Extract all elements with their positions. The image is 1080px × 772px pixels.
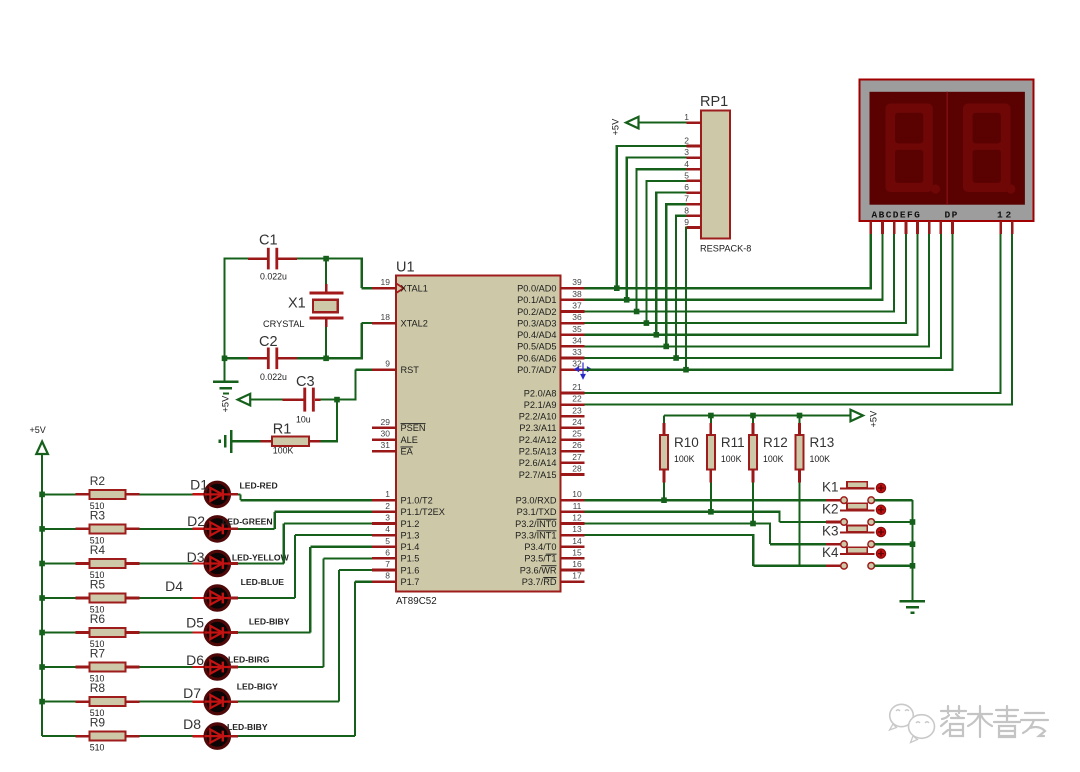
pin 35 (517, 324, 584, 340)
svg-text:P3.0/RXD: P3.0/RXD (516, 496, 557, 506)
svg-text:LED-GREEN: LED-GREEN (222, 517, 273, 527)
resistor R10 (660, 416, 699, 501)
wire RP1 pin6 to P0.4 (656, 192, 686, 335)
wire D8 to pin 8 (230, 582, 372, 736)
svg-text:R11: R11 (721, 435, 745, 450)
wire P2.0 to display common 1 (585, 234, 1001, 394)
svg-text:XTAL1: XTAL1 (401, 284, 428, 294)
svg-text:D1: D1 (190, 477, 208, 493)
pin 33 (517, 347, 584, 363)
pin 28 (519, 464, 585, 480)
svg-text:P2.2/A10: P2.2/A10 (519, 412, 557, 422)
wire RP1 pin2 to P0.0 (617, 145, 687, 288)
svg-text:+5V: +5V (30, 425, 46, 435)
svg-text:CRYSTAL: CRYSTAL (263, 319, 305, 329)
LED D8 (183, 716, 268, 748)
pin 26 (519, 440, 585, 456)
svg-text:D8: D8 (183, 716, 201, 732)
svg-text:30: 30 (381, 429, 391, 439)
svg-text:100K: 100K (810, 454, 831, 464)
pin 10 (516, 489, 585, 505)
wire P0.0 to display A (585, 234, 871, 289)
wire P0.7 to display DP (585, 234, 953, 371)
svg-text:P0.3/AD3: P0.3/AD3 (517, 318, 556, 328)
junction C3/R1 (334, 397, 340, 403)
svg-text:AT89C52: AT89C52 (396, 596, 437, 607)
svg-text:31: 31 (381, 440, 391, 450)
pin 22 (524, 394, 585, 410)
op-amp U1 body (AT89C52 MCU) (396, 260, 561, 608)
pin 4 RP1 (684, 159, 701, 170)
pin 37 (517, 301, 584, 317)
svg-text:29: 29 (381, 417, 391, 427)
origin marker (blue) (575, 363, 591, 379)
svg-text:P3.5/T1: P3.5/T1 (524, 554, 556, 564)
svg-text:28: 28 (572, 464, 582, 474)
pin 19 (372, 277, 428, 293)
pin 9 (372, 359, 419, 375)
junction rail (797, 413, 803, 419)
LED D5 (186, 615, 290, 645)
pin 3 RP1 (684, 147, 701, 158)
svg-text:R13: R13 (810, 435, 835, 450)
svg-text:K4: K4 (822, 545, 839, 560)
svg-text:36: 36 (572, 312, 582, 322)
svg-text:LED-BLUE: LED-BLUE (241, 577, 285, 587)
svg-text:P1.3: P1.3 (401, 530, 420, 540)
svg-text:P2.1/A9: P2.1/A9 (524, 400, 557, 410)
svg-text:10: 10 (572, 489, 582, 499)
svg-text:P1.6: P1.6 (401, 565, 420, 575)
pin 1 display (999, 221, 1002, 234)
pin 30 (372, 429, 418, 445)
junction C2 left (222, 356, 228, 362)
pin 2 (372, 501, 445, 517)
svg-text:P0.6/AD6: P0.6/AD6 (517, 353, 556, 363)
svg-text:3: 3 (385, 513, 390, 523)
LED D6 (186, 652, 270, 679)
LED D4 (165, 577, 284, 610)
junction (624, 297, 630, 303)
pin 8 RP1 (684, 205, 701, 216)
svg-text:ABCDEFG: ABCDEFG (872, 210, 922, 221)
wire R8 to LED (140, 700, 193, 702)
wire D5 to pin 5 (230, 547, 372, 633)
wire P2.1 to display common 2 (585, 234, 1013, 406)
svg-text:R1: R1 (273, 422, 292, 438)
junction (654, 332, 660, 338)
svg-text:7: 7 (385, 559, 390, 569)
svg-text:2: 2 (1006, 210, 1012, 221)
svg-text:RP1: RP1 (700, 94, 728, 110)
svg-text:K1: K1 (822, 480, 839, 495)
svg-text:P1.5: P1.5 (401, 554, 420, 564)
svg-text:LED-BIGY: LED-BIGY (237, 681, 278, 691)
svg-text:P0.5/AD5: P0.5/AD5 (517, 342, 556, 352)
resistor R8 (42, 681, 140, 718)
wire C2 row to XTAL2 pin18 (326, 323, 373, 359)
wire RP1 pin3 to P0.1 (627, 157, 687, 300)
svg-text:100K: 100K (273, 446, 294, 456)
wire R7 to LED (140, 666, 193, 668)
wire RP1 pin5 to P0.3 (646, 180, 686, 323)
junction (683, 367, 689, 373)
pin 39 (517, 277, 584, 293)
svg-text:U1: U1 (396, 260, 415, 276)
svg-text:26: 26 (572, 440, 582, 450)
svg-text:P2.5/A13: P2.5/A13 (519, 447, 557, 457)
svg-text:LED-BIBY: LED-BIBY (227, 722, 268, 732)
pin 36 (517, 312, 584, 328)
wire RP1 pin4 to P0.2 (637, 168, 687, 311)
svg-text:15: 15 (572, 547, 582, 557)
pin D display (905, 221, 908, 234)
pin 7 (372, 559, 419, 575)
svg-text:R9: R9 (90, 716, 106, 730)
svg-text:510: 510 (90, 743, 105, 753)
pin E display (916, 221, 919, 234)
svg-text:XTAL2: XTAL2 (401, 318, 428, 328)
pin 1 (372, 489, 433, 505)
svg-text:P1.0/T2: P1.0/T2 (401, 496, 433, 506)
pin 2 RP1 (684, 136, 701, 147)
wire RP1 pin9 to P0.7 (685, 226, 688, 369)
LED D2 (187, 513, 273, 541)
svg-text:R2: R2 (90, 474, 106, 488)
svg-text:38: 38 (572, 289, 582, 299)
wire P3.0 to K1 (585, 499, 833, 501)
svg-text:D6: D6 (186, 652, 204, 668)
junction (673, 355, 679, 361)
svg-text:19: 19 (381, 277, 391, 287)
svg-text:1: 1 (385, 489, 390, 499)
button K3 (822, 524, 913, 548)
wire C3 junction down to R1 (320, 400, 338, 442)
junction bus (39, 630, 45, 636)
svg-text:R4: R4 (90, 543, 106, 557)
svg-text:K3: K3 (822, 524, 839, 539)
wire P3.2 to K3 (jog) (585, 522, 833, 544)
svg-text:R6: R6 (90, 612, 106, 626)
pin 24 (519, 417, 584, 433)
wire R4 to LED (140, 562, 193, 564)
svg-text:3: 3 (684, 147, 689, 157)
LED D7 (183, 681, 278, 713)
junction C1/X1 (323, 256, 329, 262)
svg-text:PSEN: PSEN (401, 423, 426, 433)
wire K bus vertical (911, 500, 913, 600)
LED D3 (187, 549, 290, 576)
pin 8 (372, 571, 419, 587)
button K2 (822, 501, 913, 525)
capacitor C2 (225, 334, 327, 382)
svg-text:P0.1/AD1: P0.1/AD1 (517, 295, 556, 305)
svg-text:P0.4/AD4: P0.4/AD4 (517, 330, 556, 340)
wire R5 to LED (140, 597, 193, 599)
svg-text:R3: R3 (90, 508, 106, 522)
svg-text:21: 21 (572, 382, 582, 392)
wire P0.2 to display C (585, 234, 895, 313)
svg-text:1: 1 (684, 112, 689, 122)
resistor pack RP1 (700, 94, 751, 254)
svg-text:100K: 100K (763, 454, 784, 464)
svg-text:RST: RST (401, 365, 420, 375)
svg-text:39: 39 (572, 277, 582, 287)
wire R2 to LED (140, 493, 193, 495)
svg-text:P3.7/RD: P3.7/RD (522, 577, 557, 587)
resistor R3 (42, 508, 140, 545)
svg-text:D5: D5 (186, 615, 204, 631)
svg-text:2: 2 (385, 501, 390, 511)
svg-text:P3.2/INT0: P3.2/INT0 (515, 519, 556, 529)
resistor R2 (42, 474, 140, 511)
svg-text:11: 11 (573, 501, 582, 511)
pin C display (893, 221, 896, 234)
pin 12 (515, 513, 584, 529)
junction R10 bottom (661, 497, 667, 503)
svg-text:LED-RED: LED-RED (240, 481, 278, 491)
svg-text:P0.7/AD7: P0.7/AD7 (517, 365, 556, 375)
button K4 (822, 545, 913, 569)
clock marker XTAL1 (397, 284, 404, 293)
pin 7 RP1 (684, 194, 701, 205)
svg-text:DP: DP (945, 210, 959, 221)
button K1 (822, 480, 913, 504)
svg-text:P2.4/A12: P2.4/A12 (519, 435, 557, 445)
resistor R4 (42, 543, 140, 580)
pin 18 (372, 312, 428, 328)
svg-text:17: 17 (572, 571, 582, 581)
capacitor C3 (282, 374, 337, 425)
svg-text:100K: 100K (674, 454, 695, 464)
svg-text:LED-BIBY: LED-BIBY (249, 617, 290, 627)
pin 1 RP1 (684, 112, 701, 123)
junction bus (39, 492, 45, 498)
svg-text:12: 12 (572, 513, 582, 523)
wire left vertical C1-C2 (223, 258, 225, 359)
wire D2 to pin 2 (230, 512, 372, 529)
pin 17 (522, 571, 585, 587)
crystal X1 (263, 259, 344, 359)
svg-text:14: 14 (572, 536, 582, 546)
junction bus (39, 699, 45, 705)
svg-text:35: 35 (572, 324, 582, 334)
pin 6 (372, 547, 419, 563)
svg-text:34: 34 (572, 335, 582, 345)
power +5V left (30, 425, 48, 736)
wire P0.3 to display D (585, 234, 907, 324)
svg-text:37: 37 (572, 301, 582, 311)
resistor R9 (42, 716, 140, 753)
svg-text:0.022u: 0.022u (260, 372, 287, 382)
svg-text:LED-YELLOW: LED-YELLOW (232, 553, 290, 563)
pin 29 (372, 417, 426, 433)
resistor R6 (42, 612, 140, 649)
junction bus (39, 526, 45, 532)
svg-text:P1.1/T2EX: P1.1/T2EX (401, 507, 445, 517)
power +5V at C3 (221, 394, 283, 413)
pin 15 (524, 547, 584, 563)
svg-text:P3.4/T0: P3.4/T0 (524, 542, 556, 552)
svg-text:C1: C1 (259, 233, 278, 249)
svg-text:P3.1/TXD: P3.1/TXD (517, 507, 557, 517)
svg-text:D3: D3 (187, 549, 205, 565)
svg-text:D2: D2 (187, 513, 205, 529)
junction (644, 320, 650, 326)
svg-text:23: 23 (572, 405, 582, 415)
svg-text:R7: R7 (90, 647, 106, 661)
svg-text:13: 13 (572, 524, 582, 534)
pin 5 RP1 (684, 170, 701, 181)
junction rail (750, 413, 756, 419)
pin 38 (517, 289, 584, 305)
svg-text:0.022u: 0.022u (260, 272, 287, 282)
junction R12 bottom (750, 521, 756, 527)
svg-text:25: 25 (572, 429, 582, 439)
resistor R11 (707, 416, 745, 512)
svg-text:+5V: +5V (611, 118, 621, 136)
wire D3 to pin 3 (230, 524, 372, 564)
pin 3 (372, 513, 419, 529)
pin 23 (519, 405, 585, 421)
pin 31 (372, 440, 414, 456)
resistor R1 (261, 422, 321, 456)
svg-text:6: 6 (684, 182, 689, 192)
svg-text:33: 33 (572, 347, 582, 357)
svg-text:P1.7: P1.7 (401, 577, 420, 587)
svg-text:D7: D7 (183, 685, 201, 701)
pin 16 (520, 559, 585, 575)
svg-text:P3.3/INT1: P3.3/INT1 (515, 530, 556, 540)
svg-text:100K: 100K (721, 454, 742, 464)
pin 13 (515, 524, 584, 540)
svg-text:R5: R5 (90, 578, 106, 592)
wire R6 to LED (140, 631, 193, 633)
svg-text:K2: K2 (822, 501, 839, 516)
svg-text:10u: 10u (296, 415, 311, 425)
svg-text:P2.3/A11: P2.3/A11 (519, 423, 556, 433)
svg-text:P1.2: P1.2 (401, 519, 420, 529)
svg-text:+5V: +5V (221, 395, 231, 413)
pin 11 (517, 501, 585, 517)
svg-text:2: 2 (684, 136, 689, 146)
capacitor C1 (225, 233, 327, 282)
svg-text:D4: D4 (165, 578, 183, 594)
svg-text:EA: EA (401, 447, 414, 457)
svg-text:6: 6 (385, 547, 390, 557)
wire P0.4 to display E (585, 234, 918, 336)
power +5V rail right (664, 410, 879, 428)
svg-text:4: 4 (385, 524, 390, 534)
pin DP display (951, 221, 954, 234)
wire P0.6 to display G (585, 234, 941, 359)
wire P0.1 to display B (585, 234, 883, 301)
svg-text:P2.0/A8: P2.0/A8 (524, 388, 557, 398)
svg-text:4: 4 (684, 159, 689, 169)
svg-text:16: 16 (572, 559, 582, 569)
svg-text:P1.4: P1.4 (401, 542, 420, 552)
junction bus (39, 561, 45, 567)
svg-text:1: 1 (997, 210, 1003, 221)
wire RP1 pin7 to P0.5 (666, 203, 686, 346)
svg-text:P0.2/AD2: P0.2/AD2 (517, 307, 556, 317)
resistor R7 (42, 647, 140, 684)
svg-text:LED-BIRG: LED-BIRG (228, 654, 270, 664)
svg-text:8: 8 (385, 571, 390, 581)
junction K bus (910, 519, 916, 525)
svg-text:X1: X1 (288, 296, 306, 312)
pin B display (881, 221, 884, 234)
svg-text:32: 32 (572, 359, 582, 369)
svg-text:R8: R8 (90, 681, 106, 695)
pin 34 (517, 335, 584, 351)
pin F display (928, 221, 931, 234)
resistor R5 (42, 578, 140, 615)
pin 27 (519, 452, 585, 468)
wire C3 to RST pin9 (337, 370, 373, 401)
resistor R13 (795, 416, 834, 566)
wire P3.3 to K4 (jog) (585, 534, 833, 566)
wire C1 row to XTAL1 pin19 (326, 258, 373, 289)
wire D7 to pin 7 (230, 570, 372, 702)
pin G display (940, 221, 943, 234)
junction rail (708, 413, 714, 419)
LED D1 (190, 477, 278, 507)
svg-text:+5V: +5V (869, 410, 879, 428)
svg-text:9: 9 (684, 217, 689, 227)
junction (663, 344, 669, 350)
svg-text:ALE: ALE (401, 435, 418, 445)
pin 5 (372, 536, 419, 552)
svg-text:RESPACK-8: RESPACK-8 (700, 244, 751, 254)
junction R11 bottom (708, 509, 714, 515)
svg-text:C2: C2 (259, 334, 278, 350)
junction C2/X1 (323, 356, 329, 362)
pin A display (869, 221, 872, 234)
junction K bus (910, 563, 916, 569)
watermark logo (890, 704, 935, 742)
pin 6 RP1 (684, 182, 701, 193)
svg-text:24: 24 (572, 417, 582, 427)
junction bus (39, 595, 45, 601)
svg-text:27: 27 (572, 452, 582, 462)
wire D1 to pin 1 (230, 494, 372, 500)
svg-text:18: 18 (381, 312, 391, 322)
svg-text:R12: R12 (763, 435, 788, 450)
ground below C2 (213, 358, 239, 393)
wire D4 to pin 4 (230, 535, 372, 598)
svg-text:5: 5 (385, 536, 390, 546)
7-segment display DS1 (860, 79, 1034, 221)
svg-text:22: 22 (572, 394, 582, 404)
junction (614, 285, 620, 291)
pin 9 RP1 (684, 217, 701, 228)
pin 25 (519, 429, 585, 445)
wire RP1 pin8 to P0.6 (676, 215, 686, 358)
svg-text:R10: R10 (674, 435, 699, 450)
pin 32 (517, 359, 584, 375)
ground below keys (900, 601, 925, 612)
svg-text:P2.6/A14: P2.6/A14 (519, 458, 557, 468)
junction bus (39, 664, 45, 670)
pin 2 display (1011, 221, 1014, 234)
wire R3 to LED (140, 528, 193, 530)
pin 21 (524, 382, 585, 398)
watermark text (941, 706, 1048, 737)
svg-text:8: 8 (684, 205, 689, 215)
power +5V at RP1 pin1 (611, 117, 687, 136)
svg-text:P0.0/AD0: P0.0/AD0 (517, 284, 556, 294)
